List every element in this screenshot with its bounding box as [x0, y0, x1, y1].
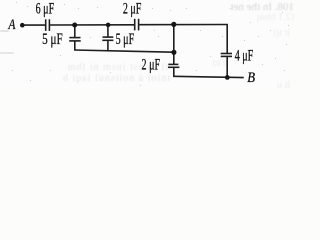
- svg-text:2 μF: 2 μF: [142, 55, 161, 73]
- svg-text:2 μF: 2 μF: [123, 0, 142, 17]
- svg-text:5 μF: 5 μF: [116, 30, 135, 48]
- svg-text:4 μF: 4 μF: [235, 46, 254, 64]
- svg-text:6 μF: 6 μF: [36, 0, 55, 17]
- svg-text:B: B: [247, 69, 255, 85]
- svg-text:5 μF: 5 μF: [42, 30, 63, 47]
- svg-text:A: A: [8, 15, 17, 32]
